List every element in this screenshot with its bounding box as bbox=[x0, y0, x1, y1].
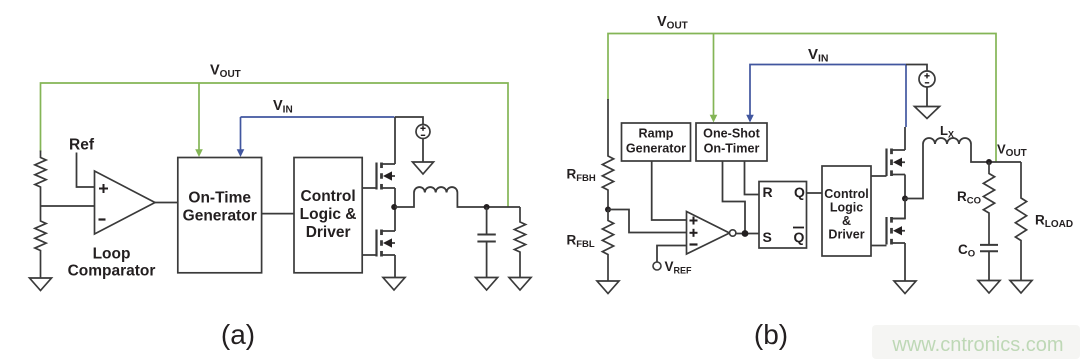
figure (a) green VOUT arrow into On-Time Generator bbox=[198, 83, 200, 150]
transistor Q1 high-side MOSFET (b) bbox=[885, 149, 887, 177]
svg-text:VOUT: VOUT bbox=[210, 63, 241, 81]
wire Q2 drain to switch node (a) bbox=[394, 207, 396, 231]
svg-text:(b): (b) bbox=[754, 319, 788, 350]
svg-text:Loop: Loop bbox=[93, 246, 131, 263]
svg-text:Logic: Logic bbox=[830, 201, 863, 215]
svg-text:VIN: VIN bbox=[273, 98, 293, 116]
op-amp loop comparator triangle bbox=[95, 171, 156, 234]
loop comparator - sign bbox=[99, 218, 106, 220]
svg-text:VOUT: VOUT bbox=[657, 14, 688, 32]
ground below CO bbox=[978, 281, 1000, 294]
figure (a) Ref wire to comparator + input bbox=[77, 153, 95, 188]
figure (b) green VOUT arrow into One-Shot On-Timer bbox=[713, 34, 715, 116]
resistor RCO bbox=[983, 162, 994, 245]
capacitor CO bbox=[988, 244, 990, 246]
svg-text:Q: Q bbox=[794, 229, 805, 245]
svg-text:www.cntronics.com: www.cntronics.com bbox=[891, 334, 1063, 356]
svg-text:Ref: Ref bbox=[69, 137, 95, 154]
figure (a) blue VIN arrow into On-Time Generator bbox=[240, 117, 242, 150]
svg-text:Comparator: Comparator bbox=[68, 263, 156, 280]
wire inductor to VOUT node bbox=[971, 144, 1021, 162]
wire inductor to output node (a) bbox=[457, 193, 520, 208]
svg-text:Ramp: Ramp bbox=[639, 127, 674, 141]
wire Q1 drain to VIN (b) bbox=[904, 127, 906, 150]
svg-text:Generator: Generator bbox=[183, 208, 257, 225]
svg-text:(a): (a) bbox=[221, 319, 255, 350]
svg-text:Driver: Driver bbox=[306, 224, 351, 241]
wire Q2 drain to switch node (b) bbox=[892, 199, 906, 219]
wire latch Q to control logic (b) bbox=[807, 192, 823, 194]
figure (a) node wire to comparator - input bbox=[41, 205, 95, 207]
svg-text:VOUT: VOUT bbox=[997, 142, 1027, 160]
svg-text:On-Timer: On-Timer bbox=[704, 142, 760, 156]
ground below Q2 (a) bbox=[383, 278, 405, 291]
svg-text:Generator: Generator bbox=[626, 142, 686, 156]
svg-text:S: S bbox=[763, 229, 772, 245]
voltage source VIN supply (a) bbox=[395, 117, 423, 125]
block SR latch bbox=[759, 182, 807, 249]
figure (b) blue wire down to Q1 drain bbox=[905, 65, 907, 128]
wire Q2 source to ground (a) bbox=[394, 255, 396, 278]
comparator (b) - sign bbox=[690, 243, 698, 245]
loop comparator + sign bbox=[99, 188, 108, 190]
inductor LX bbox=[923, 138, 971, 144]
ground below RLOAD bbox=[1010, 281, 1032, 294]
figure (a) green net VOUT rail bbox=[41, 83, 509, 207]
comparator (b) output inversion bubble bbox=[730, 230, 736, 236]
figure (a) blue net VIN rail bbox=[241, 116, 395, 118]
wire gate low-side (b) bbox=[871, 245, 887, 247]
svg-text:&: & bbox=[842, 214, 851, 228]
svg-text:Q: Q bbox=[794, 184, 805, 200]
wire source to ground (a) bbox=[422, 139, 424, 163]
ground below load (a) bbox=[509, 278, 531, 291]
wire Q1 source to switch node (b) bbox=[904, 175, 906, 199]
node switch node (a) bbox=[391, 204, 397, 210]
resistor RFBH bbox=[602, 99, 613, 210]
wire Ramp Generator output to comparator bbox=[652, 161, 687, 220]
comparator (b) + sign lower bbox=[690, 232, 698, 234]
transistor Q2 low-side MOSFET (a) bbox=[375, 230, 377, 257]
svg-text:VREF: VREF bbox=[665, 259, 693, 276]
figure (b) blue VIN arrow into One-Shot On-Timer bbox=[746, 115, 754, 123]
wire Q1 drain to VIN rail (a) bbox=[394, 117, 396, 164]
resistor RLOAD bbox=[1015, 162, 1026, 281]
figure (b) green net VOUT rail bbox=[608, 34, 996, 163]
block Control Logic and Driver (b) bbox=[822, 166, 871, 256]
wire One-Shot trigger from S node bbox=[723, 161, 746, 234]
svg-text:CO: CO bbox=[958, 242, 975, 260]
ground below source (b) bbox=[915, 107, 940, 119]
wire switch node to inductor (a) bbox=[395, 193, 414, 208]
loop comparator output wire bbox=[155, 202, 178, 204]
node switch node (b) bbox=[902, 196, 908, 202]
block Ramp Generator bbox=[622, 123, 691, 161]
wire Q1 source to switch node (a) bbox=[394, 188, 396, 207]
figure (a) ground below divider bbox=[30, 278, 52, 291]
wire gate low-side (a) bbox=[362, 254, 376, 256]
terminal VREF circle bbox=[653, 262, 661, 270]
watermark background bbox=[872, 325, 1080, 359]
comparator (b) + sign upper bbox=[690, 220, 698, 222]
ground below RFBL bbox=[597, 281, 619, 294]
inductor L (a) bbox=[414, 187, 457, 192]
svg-text:Logic &: Logic & bbox=[300, 206, 357, 223]
ground below Q2 (b) bbox=[894, 281, 916, 294]
svg-text:RFBL: RFBL bbox=[567, 233, 595, 251]
capacitor output (a) bbox=[486, 207, 488, 235]
figure (a) feedback resistor lower bbox=[35, 206, 46, 278]
resistor RFBL bbox=[602, 210, 613, 282]
svg-text:RLOAD: RLOAD bbox=[1035, 213, 1073, 231]
wire gate high-side (b) bbox=[871, 175, 887, 177]
wire gate high-side (a) bbox=[362, 187, 376, 189]
node VOUT (b) bbox=[986, 159, 992, 165]
svg-text:LX: LX bbox=[940, 123, 954, 140]
wire On-Time Generator to Control Logic bbox=[262, 213, 294, 215]
svg-text:RFBH: RFBH bbox=[567, 167, 596, 185]
svg-text:Control: Control bbox=[301, 188, 356, 205]
svg-text:RCO: RCO bbox=[957, 189, 981, 207]
node feedback divider (b) bbox=[605, 207, 611, 213]
ground below source (a) bbox=[413, 162, 434, 174]
wire Q2 source to ground (b) bbox=[904, 243, 906, 281]
svg-text:One-Shot: One-Shot bbox=[703, 127, 760, 141]
svg-text:On-Time: On-Time bbox=[188, 190, 251, 207]
svg-text:VIN: VIN bbox=[808, 46, 829, 65]
block One-Shot On-Timer bbox=[696, 123, 767, 161]
voltage source VIN supply (b) bbox=[906, 65, 927, 72]
transistor Q2 low-side MOSFET (b) bbox=[885, 217, 887, 245]
wire One-Shot output to latch R bbox=[745, 161, 760, 195]
wire VREF to comparator - input bbox=[657, 246, 687, 263]
block Control Logic and Driver (a) bbox=[294, 158, 362, 273]
svg-text:R: R bbox=[763, 184, 773, 200]
block On-Time Generator bbox=[178, 158, 262, 273]
figure (a) feedback resistor upper bbox=[35, 151, 46, 207]
op-amp feedback comparator (b) bbox=[687, 212, 730, 255]
svg-text:Driver: Driver bbox=[828, 228, 864, 242]
svg-text:Control: Control bbox=[824, 187, 868, 201]
wire divider node to comparator input bbox=[608, 210, 687, 233]
wire source to ground (b) bbox=[926, 87, 928, 107]
ground below capacitor (a) bbox=[476, 278, 498, 291]
wire comparator output to latch S bbox=[736, 233, 759, 235]
wire switch node to inductor LX bbox=[905, 144, 923, 199]
transistor Q1 high-side MOSFET (a) bbox=[375, 163, 377, 190]
resistor load (a) bbox=[514, 207, 525, 278]
node output cap junction (a) bbox=[484, 204, 490, 210]
node S junction dot bbox=[742, 230, 749, 237]
figure (b) blue net VIN rail bbox=[750, 65, 906, 122]
